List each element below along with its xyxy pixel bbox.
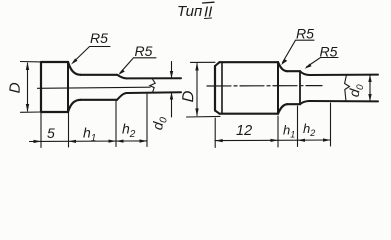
extension line x=147 [146,94,148,147]
label d0 left (rotated) [149,115,170,131]
svg-text:5: 5 [47,125,55,141]
dimension D left: extension lines [21,62,42,113]
fillet R5 shaft-to-pin top [117,75,127,79]
extension line x=297.5 [297,106,299,147]
dimension 5: outside arrow [30,140,42,142]
svg-text:R5: R5 [135,43,153,59]
extension line x=215 [214,118,216,148]
svg-text:R5: R5 [90,30,108,46]
svg-text:12: 12 [236,123,252,139]
fillet R5 shaft-to-pin bottom [117,93,127,100]
extension line x=41 [40,112,42,148]
svg-text:R5: R5 [296,26,314,42]
dimension d0 left: upper arrow line [171,62,173,79]
title overline of II [203,1,215,4]
right head chamfer corners [215,62,220,113]
left head outline [41,62,68,112]
fillet R5 neck-to-pin top right [300,71,309,75]
fillet R5 head-to-neck top right [278,62,287,71]
leader R5 #1 right [283,40,315,62]
neck end face line right [299,71,301,104]
arrowheads 12 and h2 right [215,138,330,142]
fillet R5 head-to-shaft top [68,62,81,75]
label D right (rotated) [180,90,198,103]
dimension D right: dimension line [196,64,198,116]
left head end face line [67,62,69,112]
right head chamfer line [221,62,223,113]
label 12 [236,123,252,139]
label h2 right [303,121,315,138]
label R5 #2 right [320,44,338,60]
extension line x=68.5 [68,112,70,147]
leader R5 #2 left [120,58,156,73]
title underline of II [205,17,212,20]
bottom dimension line right figure [215,139,331,142]
extension line x=330.5 [330,103,332,146]
label R5 #1 left [90,30,108,46]
centerline axis right (dash-dot) [207,85,322,87]
label D left (rotated) [7,82,25,94]
svg-text:D: D [180,90,198,103]
extension line x=278 [277,116,279,147]
dimension d0 right: dimension line [369,76,371,101]
neck top edge right [287,70,300,72]
fillet R5 neck-to-pin bottom right [300,101,309,104]
leader R5 #2 right [307,58,339,68]
label h1 left [83,125,96,145]
dimension d0 left: lower arrow line [171,92,173,117]
right head end face line [277,62,279,113]
title Tip II [177,3,212,21]
break line on pin [150,78,155,92]
neck bottom edge right [287,103,300,105]
label d0 right (rotated) [346,82,367,98]
fillet R5 head-to-neck bottom right [278,104,287,114]
right head outline [215,62,278,113]
bottom dimension line left figure [41,140,147,143]
label 5 [47,125,55,141]
leader R5 #1 left [73,47,110,63]
dimension D left: dimension line [27,63,29,111]
dimension D right: extension lines [187,62,221,117]
svg-text:R5: R5 [320,44,338,60]
label R5 #1 right [296,26,314,42]
extension line x=116 [115,101,117,147]
fillet R5 head-to-shaft bottom [68,100,81,112]
pin bottom edge [127,91,182,94]
label h1 right [283,123,295,140]
label h2 left [122,121,136,141]
centerline axis left [38,87,151,88]
label R5 #2 left [135,43,153,59]
arrowheads h1 [69,139,148,143]
pin bottom edge right [309,100,378,102]
break line on right pin [345,75,350,101]
pin top edge right [309,74,378,76]
shaft top edge [81,74,118,76]
svg-text:Тип: Тип [177,3,202,20]
dimension D left: arrowheads [26,62,29,112]
svg-text:D: D [7,82,25,94]
shaft bottom edge [81,99,118,101]
pin top edge [127,77,182,79]
